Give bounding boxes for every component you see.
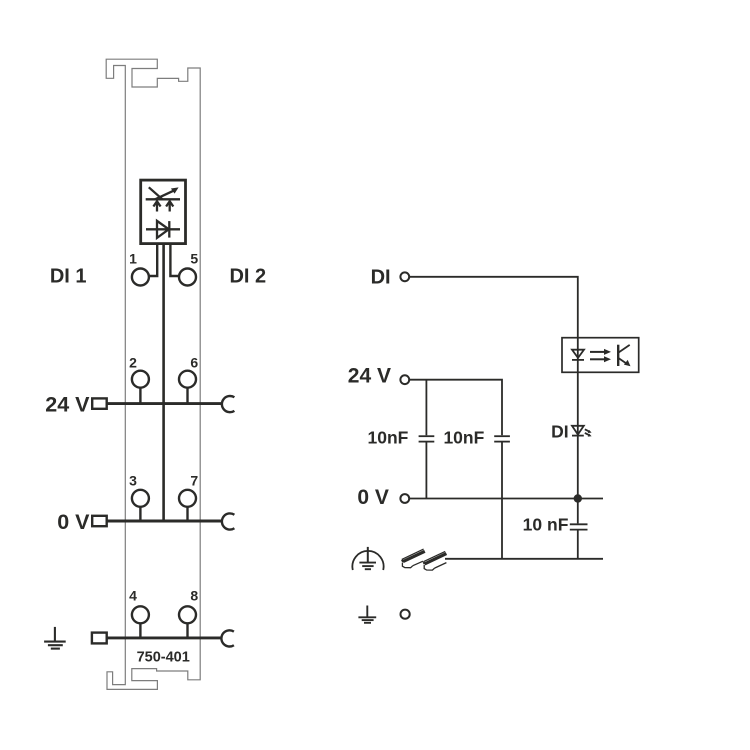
svg-text:1: 1 [129, 251, 137, 267]
svg-text:DI 2: DI 2 [229, 266, 266, 288]
svg-text:24 V: 24 V [45, 392, 90, 416]
svg-text:750-401: 750-401 [137, 650, 190, 666]
svg-text:10nF: 10nF [368, 427, 409, 447]
svg-text:4: 4 [129, 588, 137, 604]
svg-text:10nF: 10nF [443, 427, 484, 447]
svg-text:7: 7 [190, 473, 198, 489]
svg-text:2: 2 [129, 354, 137, 370]
svg-text:8: 8 [190, 588, 198, 604]
svg-text:0 V: 0 V [57, 510, 90, 534]
svg-text:10 nF: 10 nF [523, 515, 569, 535]
svg-text:DI: DI [371, 267, 391, 289]
svg-text:3: 3 [129, 473, 137, 489]
svg-text:DI 1: DI 1 [50, 266, 87, 288]
svg-text:DI: DI [551, 421, 569, 441]
svg-text:0 V: 0 V [357, 486, 389, 509]
svg-text:6: 6 [190, 354, 198, 370]
svg-text:24 V: 24 V [348, 365, 391, 388]
svg-text:5: 5 [190, 251, 198, 267]
